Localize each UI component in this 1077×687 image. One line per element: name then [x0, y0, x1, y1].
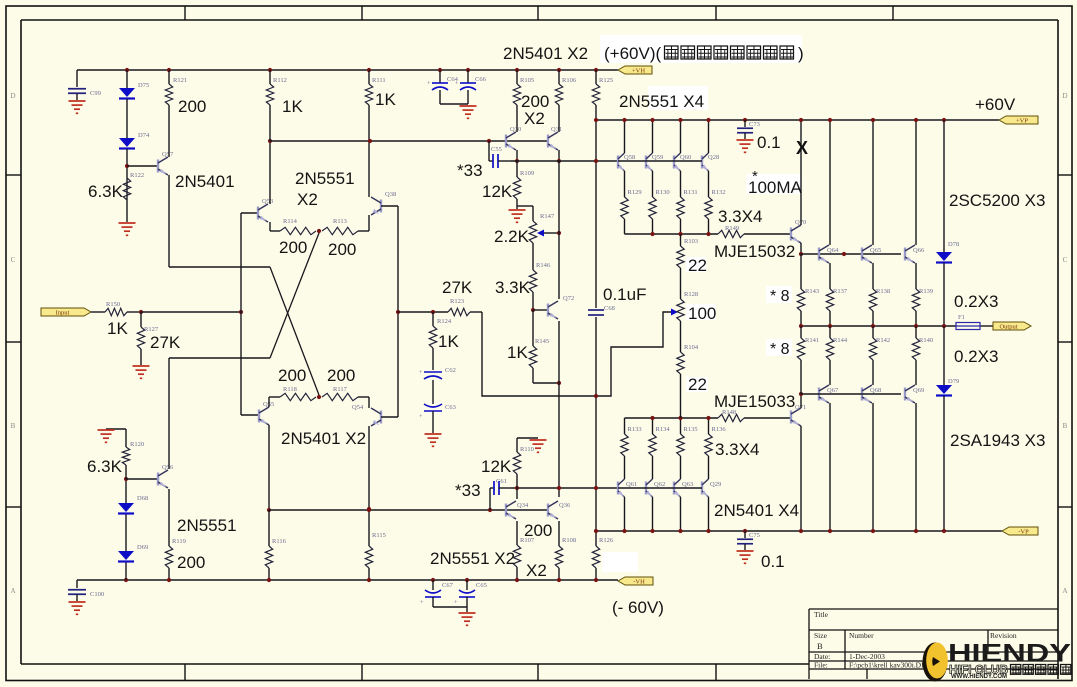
- svg-text:Q56: Q56: [162, 464, 174, 471]
- svg-text:2N5401: 2N5401: [175, 172, 235, 191]
- svg-text:Output: Output: [999, 323, 1017, 330]
- svg-text:(+60V)(: (+60V)(: [604, 44, 661, 63]
- svg-text:R147: R147: [540, 213, 555, 220]
- svg-text:D: D: [10, 92, 15, 100]
- svg-text:Q30: Q30: [510, 126, 521, 133]
- svg-text:2N5551 X2: 2N5551 X2: [430, 549, 515, 568]
- svg-text:27K: 27K: [442, 278, 473, 297]
- svg-text:D79: D79: [948, 378, 959, 385]
- svg-text:R110: R110: [520, 446, 534, 453]
- svg-text:2SC5200 X3: 2SC5200 X3: [949, 191, 1045, 210]
- svg-text:Q28: Q28: [708, 154, 719, 161]
- svg-text:R123: R123: [450, 298, 464, 305]
- svg-text:R149: R149: [725, 225, 739, 232]
- svg-text:Input: Input: [56, 309, 70, 316]
- svg-text:B: B: [817, 641, 823, 651]
- svg-text:R138: R138: [876, 288, 890, 295]
- svg-text:200: 200: [524, 521, 552, 540]
- svg-text:2N5401 X2: 2N5401 X2: [503, 44, 588, 63]
- svg-text:Q36: Q36: [559, 502, 571, 509]
- svg-text:Q68: Q68: [870, 387, 881, 394]
- svg-text:0.2X3: 0.2X3: [954, 347, 998, 366]
- svg-text:2N5551: 2N5551: [295, 169, 355, 188]
- svg-text:C73: C73: [749, 121, 760, 128]
- svg-text:C100: C100: [90, 591, 104, 598]
- svg-text:X2: X2: [526, 561, 547, 580]
- svg-text:200: 200: [328, 240, 356, 259]
- svg-text:Size: Size: [814, 631, 828, 640]
- svg-text:0.1: 0.1: [757, 133, 781, 152]
- svg-text:MJE15032: MJE15032: [714, 242, 795, 261]
- svg-text:Q31: Q31: [551, 126, 562, 133]
- svg-text:X2: X2: [524, 109, 545, 128]
- svg-text:1K: 1K: [375, 90, 396, 109]
- svg-text:C62: C62: [445, 367, 456, 374]
- svg-text:C: C: [1063, 256, 1068, 264]
- svg-text:*33: *33: [455, 481, 481, 500]
- svg-text:Q57: Q57: [162, 151, 174, 158]
- svg-text:Q53: Q53: [262, 198, 273, 205]
- svg-text:6.3K: 6.3K: [87, 457, 123, 476]
- svg-text:C61: C61: [496, 478, 507, 485]
- svg-text:A: A: [1062, 587, 1067, 595]
- svg-text:F:\pcb1\krell kav300i.DDB: F:\pcb1\krell kav300i.DDB: [849, 661, 932, 670]
- svg-text:200: 200: [327, 366, 355, 385]
- svg-text:1K: 1K: [438, 332, 459, 351]
- svg-text:22: 22: [688, 375, 707, 394]
- svg-text:Q58: Q58: [624, 154, 635, 161]
- svg-text:*: *: [752, 168, 758, 185]
- svg-text:R124: R124: [437, 318, 452, 325]
- svg-text:2.2K: 2.2K: [494, 227, 530, 246]
- svg-text:R140: R140: [919, 337, 933, 344]
- svg-text:* 8: * 8: [770, 288, 790, 305]
- svg-text:Q69: Q69: [913, 387, 924, 394]
- svg-text:R136: R136: [712, 426, 727, 433]
- svg-text:R144: R144: [833, 337, 848, 344]
- svg-text:Q34: Q34: [517, 502, 529, 509]
- svg-text:Q66: Q66: [913, 247, 925, 254]
- svg-text:200: 200: [278, 366, 306, 385]
- svg-text:B: B: [1063, 422, 1068, 430]
- svg-text:C64: C64: [447, 76, 459, 83]
- svg-text:R121: R121: [173, 77, 187, 84]
- svg-text:12K: 12K: [482, 182, 513, 201]
- svg-text:C67: C67: [442, 582, 454, 589]
- svg-text:(- 60V): (- 60V): [612, 598, 664, 617]
- svg-text:Q63: Q63: [682, 481, 693, 488]
- svg-text:1K: 1K: [107, 319, 128, 338]
- svg-text:): ): [798, 44, 804, 63]
- svg-text:R133: R133: [628, 426, 642, 433]
- svg-text:2N5401 X2: 2N5401 X2: [281, 429, 366, 448]
- svg-text:X2: X2: [297, 190, 318, 209]
- svg-text:R134: R134: [656, 426, 671, 433]
- svg-text:R104: R104: [684, 344, 699, 351]
- svg-text:R122: R122: [130, 172, 144, 179]
- svg-text:WWW.HIENDY.COM: WWW.HIENDY.COM: [951, 674, 1007, 680]
- svg-text:Title: Title: [814, 610, 829, 619]
- svg-text:R125: R125: [599, 77, 613, 84]
- svg-text:2N5401 X4: 2N5401 X4: [714, 501, 799, 520]
- svg-text:200: 200: [279, 238, 307, 257]
- svg-text:Q59: Q59: [652, 154, 663, 161]
- svg-text:D69: D69: [137, 544, 148, 551]
- svg-text:+VH: +VH: [632, 67, 645, 74]
- svg-text:F1: F1: [958, 314, 965, 321]
- svg-text:R115: R115: [372, 532, 386, 539]
- svg-text:3.3K: 3.3K: [495, 278, 531, 297]
- svg-text:2N5551 X4: 2N5551 X4: [619, 92, 704, 111]
- svg-text:3.3X4: 3.3X4: [718, 207, 762, 226]
- svg-text:* 8: * 8: [770, 341, 790, 358]
- svg-text:+: +: [419, 369, 423, 376]
- svg-text:R112: R112: [273, 77, 287, 84]
- svg-text:R139: R139: [919, 288, 933, 295]
- svg-text:200: 200: [177, 553, 205, 572]
- svg-text:R137: R137: [833, 288, 848, 295]
- svg-text:B: B: [11, 422, 16, 430]
- svg-text:C68: C68: [604, 305, 615, 312]
- svg-text:R119: R119: [172, 538, 186, 545]
- svg-text:Q60: Q60: [680, 154, 691, 161]
- svg-text:File:: File:: [814, 661, 828, 670]
- svg-text:R145: R145: [535, 338, 549, 345]
- svg-text:R127: R127: [144, 326, 159, 333]
- svg-text:Q61: Q61: [626, 481, 637, 488]
- svg-text:100: 100: [688, 304, 716, 323]
- svg-text:C99: C99: [90, 90, 101, 97]
- svg-text:R114: R114: [283, 218, 298, 225]
- svg-text:D75: D75: [138, 82, 149, 89]
- svg-text:C55: C55: [491, 146, 502, 153]
- svg-text:Q62: Q62: [654, 481, 665, 488]
- svg-text:+60V: +60V: [975, 95, 1016, 114]
- svg-text:C66: C66: [475, 76, 487, 83]
- svg-text:R130: R130: [656, 189, 670, 196]
- svg-text:0.1: 0.1: [761, 552, 785, 571]
- svg-text:+: +: [454, 599, 458, 606]
- svg-text:D78: D78: [948, 241, 959, 248]
- svg-text:Q38: Q38: [385, 191, 396, 198]
- svg-text:Q29: Q29: [710, 481, 721, 488]
- svg-text:C: C: [11, 256, 16, 264]
- svg-text:+VP: +VP: [1016, 117, 1028, 124]
- svg-text:R118: R118: [283, 386, 297, 393]
- svg-text:R105: R105: [520, 77, 534, 84]
- svg-text:R120: R120: [130, 441, 144, 448]
- svg-text:0.2X3: 0.2X3: [954, 292, 998, 311]
- svg-text:2SA1943 X3: 2SA1943 X3: [950, 431, 1045, 450]
- svg-text:R106: R106: [562, 77, 577, 84]
- svg-text:R117: R117: [333, 386, 348, 393]
- svg-text:+: +: [427, 80, 431, 87]
- svg-text:1K: 1K: [282, 97, 303, 116]
- svg-text:C75: C75: [749, 532, 760, 539]
- svg-text:6.3K: 6.3K: [88, 182, 124, 201]
- svg-text:Q67: Q67: [827, 387, 839, 394]
- svg-text:R113: R113: [333, 218, 347, 225]
- svg-text:R135: R135: [684, 426, 698, 433]
- svg-text:Number: Number: [849, 631, 874, 640]
- svg-text:R150: R150: [106, 301, 120, 308]
- svg-text:R128: R128: [684, 291, 698, 298]
- svg-text:C63: C63: [445, 404, 456, 411]
- svg-text:MJE15033: MJE15033: [714, 392, 795, 411]
- svg-text:Q54: Q54: [352, 404, 364, 411]
- svg-text:D68: D68: [137, 495, 148, 502]
- svg-text:R108: R108: [562, 537, 576, 544]
- svg-text:R132: R132: [712, 189, 726, 196]
- svg-text:R146: R146: [536, 262, 551, 269]
- svg-text:C65: C65: [476, 582, 487, 589]
- svg-text:X: X: [796, 138, 808, 158]
- svg-text:R142: R142: [876, 337, 890, 344]
- svg-text:A: A: [10, 587, 15, 595]
- svg-text:2N5551: 2N5551: [177, 516, 237, 535]
- svg-text:27K: 27K: [150, 333, 181, 352]
- svg-text:R143: R143: [805, 288, 819, 295]
- svg-text:R103: R103: [684, 238, 698, 245]
- svg-text:R131: R131: [684, 189, 698, 196]
- svg-text:*33: *33: [457, 161, 483, 180]
- svg-text:0.1uF: 0.1uF: [603, 285, 646, 304]
- svg-text:3.3X4: 3.3X4: [715, 440, 759, 459]
- svg-text:HIENDY: HIENDY: [948, 640, 1071, 668]
- svg-text:R109: R109: [520, 170, 534, 177]
- svg-text:Q65: Q65: [870, 247, 881, 254]
- svg-text:D74: D74: [138, 132, 150, 139]
- svg-text:22: 22: [688, 256, 707, 275]
- svg-text:D: D: [1062, 92, 1067, 100]
- svg-text:R126: R126: [599, 537, 614, 544]
- svg-text:200: 200: [178, 97, 206, 116]
- svg-text:R141: R141: [805, 337, 819, 344]
- svg-text:+: +: [419, 413, 423, 420]
- svg-text:1K: 1K: [507, 343, 528, 362]
- svg-text:+: +: [420, 599, 424, 606]
- svg-text:R129: R129: [628, 189, 642, 196]
- svg-text:-VH: -VH: [633, 578, 645, 585]
- svg-text:12K: 12K: [481, 457, 512, 476]
- svg-text:Q72: Q72: [563, 295, 574, 302]
- svg-text:R111: R111: [372, 77, 386, 84]
- svg-text:-VP: -VP: [1018, 528, 1029, 535]
- svg-text:R116: R116: [272, 538, 287, 545]
- svg-text:Q64: Q64: [827, 247, 839, 254]
